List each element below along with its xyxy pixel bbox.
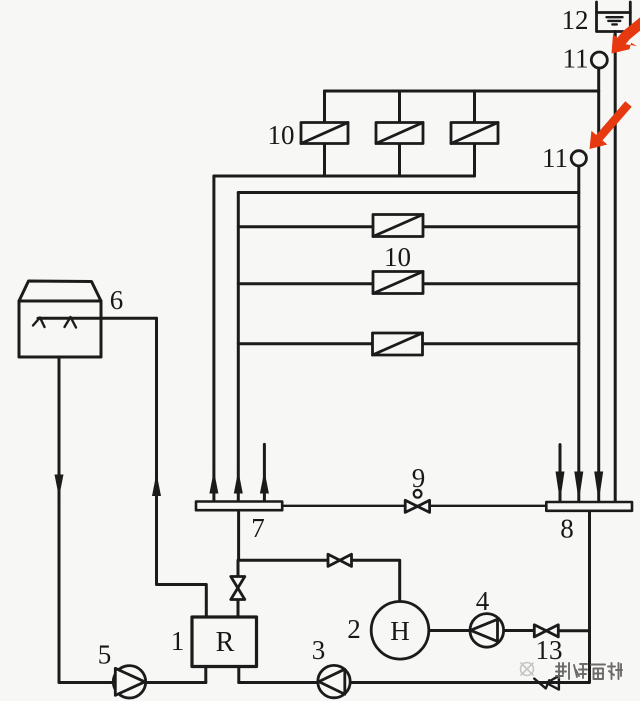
valve 9 [405, 500, 429, 512]
manifold 8 [546, 502, 632, 511]
wire R bottom-right to pump 3 [239, 681, 318, 684]
wire junction down into R boiler [237, 560, 240, 616]
wire stub above manifold 8 [559, 445, 562, 502]
wire below manifold 8 down and left along bottom [351, 511, 590, 683]
node flow arrow tank6 return up [152, 473, 161, 496]
watermark text 制冷百科 [556, 663, 622, 679]
wire R bottom-right stub [237, 667, 240, 683]
svg-text:3: 3 [312, 635, 326, 665]
tank 6 [19, 281, 101, 357]
radiator 10 (middle row 3) [373, 333, 423, 355]
svg-text:4: 4 [476, 586, 490, 616]
wire middle top bus [238, 191, 579, 194]
wire stub radiator T1 bottom [323, 144, 326, 177]
node flow arrow stub7 up [260, 471, 269, 494]
wire manifold7 to manifold8 (with valve 9) [282, 505, 546, 507]
svg-text:11: 11 [542, 143, 568, 173]
watermark logo [521, 663, 534, 676]
svg-text:6: 6 [110, 285, 124, 315]
wire stub radiator T3 top [473, 91, 476, 123]
manifold 7 [196, 502, 282, 511]
pump 5 [113, 666, 145, 698]
wire stub above manifold 7 [263, 444, 266, 501]
wire stub radiator T2 top [398, 91, 401, 123]
check valve on bottom line [534, 676, 559, 690]
wire return riser B from air collector 11b [577, 166, 580, 502]
boiler R (1) [192, 617, 257, 667]
node flow arrow into manifold8 a [556, 472, 565, 502]
radiator 10 (top row, first) [301, 123, 348, 144]
heater H (2) [371, 602, 429, 660]
wire below manifold 7 to junction [237, 510, 240, 560]
wire stub radiator T1 top [323, 91, 326, 123]
wire middle row 2 [238, 282, 579, 285]
wire H to pump 4 to valve 13 [429, 629, 534, 632]
svg-text:13: 13 [536, 635, 563, 665]
node flow arrow into manifold8 b [574, 472, 583, 502]
radiator 10 (middle row 1) [373, 215, 423, 237]
wire stub radiator T2 bottom [398, 144, 401, 177]
wire tank6 outlet to elbow riser [38, 317, 157, 320]
wire valve13 branch [559, 629, 590, 632]
wire expansion-tank drain line [614, 32, 617, 503]
svg-text:H: H [390, 616, 410, 646]
red callout arrow lower [590, 101, 632, 149]
wire riser from tank6 outlet down to R inlet [157, 318, 207, 616]
pump 4 [470, 614, 504, 648]
svg-text:2: 2 [347, 614, 361, 644]
svg-text:11: 11 [563, 44, 589, 74]
wire R bottom-left stub [204, 667, 207, 683]
wire junction to H heater riser [239, 560, 400, 603]
flow arrows (solid) [55, 471, 604, 502]
wire tank6 drain down to bottom line [59, 357, 114, 683]
radiator 10 (top row, second) [376, 123, 423, 144]
node flow arrow tank6 drain down [55, 475, 64, 498]
node flow arrow into manifold8 c [594, 472, 603, 502]
wire return riser C from air collector 11a [597, 68, 600, 502]
wire middle row 3 [238, 342, 579, 345]
wire top bus to air collector 11 [325, 90, 599, 93]
air collector 11 (lower) [571, 151, 586, 166]
wire stub radiator T3 bottom [473, 144, 476, 177]
valve 13 [534, 625, 558, 637]
node flow arrow riser1 up [209, 471, 218, 494]
svg-text:5: 5 [98, 640, 112, 670]
valve on H supply line [328, 554, 352, 566]
expansion tank 12 [597, 2, 631, 32]
wire riser2 (to middle radiators) [237, 193, 240, 502]
radiator 10 (middle row 2) [373, 272, 423, 294]
pump 3 [318, 665, 350, 697]
wire pump5 to R bottom-left [146, 681, 206, 684]
svg-text:R: R [216, 627, 235, 658]
svg-text:12: 12 [562, 5, 589, 35]
svg-text:9: 9 [412, 463, 426, 493]
svg-text:8: 8 [560, 514, 574, 544]
wire riser1 (to top-floor radiators) [212, 176, 215, 502]
red callout arrow upper [612, 16, 640, 54]
wire top-section bottom bus [214, 175, 475, 178]
svg-text:10: 10 [268, 120, 295, 150]
radiator 10 (top row, third) [451, 123, 498, 144]
svg-text:10: 10 [384, 242, 411, 272]
valve above R boiler (vertical) [231, 577, 245, 600]
wire middle row 1 [238, 225, 579, 228]
node water-level marks in tank 6 [33, 317, 76, 328]
svg-text:1: 1 [171, 626, 185, 656]
svg-text:7: 7 [251, 513, 265, 543]
node sensor circle of valve 9 [414, 490, 422, 498]
air collector 11 (upper) [591, 52, 607, 68]
node flow arrow riser2 up [234, 471, 243, 494]
